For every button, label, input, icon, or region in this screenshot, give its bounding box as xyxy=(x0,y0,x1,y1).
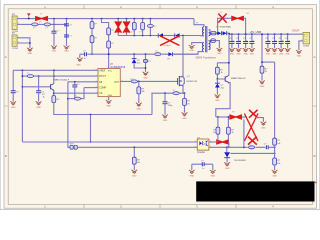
svg-text:GND: GND xyxy=(143,78,148,80)
svg-text:COMP: COMP xyxy=(99,88,106,90)
opto U2 pin numbers xyxy=(195,141,211,148)
Q1 collector wire xyxy=(53,70,55,83)
svg-text:1: 1 xyxy=(96,86,97,88)
IC U1 UC3842 xyxy=(98,69,120,98)
rectifier diode D6 xyxy=(221,31,229,35)
optocoupler U2 xyxy=(197,139,209,150)
cap C19 VREF filter xyxy=(11,91,16,93)
link to bottom loop xyxy=(90,115,92,143)
svg-text:4: 4 xyxy=(210,141,211,143)
svg-text:GND: GND xyxy=(266,54,271,56)
cap C18 on loop xyxy=(144,59,148,62)
ground C15 xyxy=(279,48,284,51)
ground D9 xyxy=(215,95,220,98)
Y-cap crossed C (red X) 1 xyxy=(115,18,122,36)
ground C8 xyxy=(229,48,234,51)
svg-text:GND: GND xyxy=(36,107,41,109)
crossed diode (red X) on bypass xyxy=(218,14,226,23)
svg-text:SMPS Transformer: SMPS Transformer xyxy=(196,57,217,60)
ground zener loop xyxy=(143,72,148,75)
ground C14 xyxy=(272,48,277,51)
ground at VCC cap xyxy=(79,54,81,58)
svg-text:1k: 1k xyxy=(43,96,45,98)
DNP bypass branch with crossed parts xyxy=(217,18,246,34)
svg-text:GND: GND xyxy=(279,54,284,56)
svg-text:1u: 1u xyxy=(269,40,271,42)
svg-text:GND: GND xyxy=(225,168,230,170)
svg-text:1u: 1u xyxy=(282,40,284,42)
ground R12 xyxy=(132,170,137,173)
svg-text:GND: GND xyxy=(189,50,194,52)
bridge crossed out (big red X) xyxy=(160,36,180,46)
ground C22 xyxy=(162,115,167,118)
crossed winding top (small red X) xyxy=(249,110,258,118)
gate pulldown resistor R20 xyxy=(137,81,145,104)
svg-text:MMBT3904-LF: MMBT3904-LF xyxy=(231,78,246,80)
ground P2 xyxy=(27,48,32,51)
svg-text:1u: 1u xyxy=(288,40,290,42)
svg-text:GND: GND xyxy=(272,54,277,56)
svg-text:1u: 1u xyxy=(253,40,255,42)
svg-text:3: 3 xyxy=(96,92,97,94)
svg-text:2k: 2k xyxy=(265,71,267,73)
svg-text:1: 1 xyxy=(18,17,19,19)
svg-text:A: A xyxy=(5,55,7,59)
svg-text:MMBT2222A-LF: MMBT2222A-LF xyxy=(53,78,70,81)
svg-text:B: B xyxy=(5,154,7,158)
zener D8 xyxy=(132,59,141,65)
bleeder chain R3 R4 xyxy=(101,18,115,55)
cap C16 xyxy=(285,33,290,48)
bleeder chain R1 R2 xyxy=(90,18,98,55)
FB wire xyxy=(68,81,98,83)
svg-text:8: 8 xyxy=(96,69,97,71)
CS sense wire xyxy=(152,93,185,114)
crossed transformer T2 (big red X) xyxy=(244,114,258,142)
svg-text:GND: GND xyxy=(132,175,137,177)
CS filter resistor R10 xyxy=(173,92,179,95)
Y-cap crossed C (red X) 2 xyxy=(123,18,130,36)
ground Y-cap left xyxy=(189,170,194,173)
bottom FB loop wire lower xyxy=(77,146,197,148)
connector P1 xyxy=(12,13,19,33)
svg-text:7: 7 xyxy=(107,67,108,69)
svg-text:1k: 1k xyxy=(232,132,234,134)
svg-text:10k: 10k xyxy=(137,162,140,164)
svg-text:1u: 1u xyxy=(246,40,248,42)
svg-text:GND: GND xyxy=(64,51,69,53)
wires P2 pins to ground xyxy=(17,38,30,48)
svg-text:FB: FB xyxy=(99,82,102,84)
junction to MOSFET drain xyxy=(182,35,184,37)
ground R16 xyxy=(259,81,264,84)
svg-text:A: A xyxy=(313,55,315,59)
crossed resistor (red bowtie) on bypass xyxy=(231,16,244,20)
svg-text:Zen: Zen xyxy=(221,87,224,89)
CS wire to IC xyxy=(54,92,98,94)
svg-text:GND: GND xyxy=(250,54,255,56)
svg-text:B: B xyxy=(313,154,315,158)
opto bias rail xyxy=(216,116,229,118)
svg-text:CS: CS xyxy=(99,93,103,95)
T2 left leg to lower wire xyxy=(243,120,245,148)
gate resistor R9 xyxy=(131,80,137,83)
TL431 ref wire xyxy=(230,152,274,154)
svg-text:1k: 1k xyxy=(213,132,215,134)
svg-text:1: 1 xyxy=(195,141,196,143)
series cap C17 on VCC rail xyxy=(83,50,86,60)
border zone ticks sides xyxy=(4,105,317,107)
svg-text:VREF: VREF xyxy=(99,71,106,73)
svg-text:UC3842B/SO8: UC3842B/SO8 xyxy=(110,67,126,69)
svg-text:GND: GND xyxy=(230,54,235,56)
pull-down resistor R12 xyxy=(133,147,135,157)
Y-cap C23 between grounds xyxy=(192,161,213,171)
ground TL431 xyxy=(225,163,230,166)
svg-text:SI2302-CB: SI2302-CB xyxy=(186,81,197,83)
svg-text:GND: GND xyxy=(190,176,195,178)
cap C8 xyxy=(229,33,234,48)
IC GND wire and ground xyxy=(108,97,110,101)
svg-text:1n: 1n xyxy=(202,168,204,170)
crossed resistor bowtie on bias rail xyxy=(229,115,242,119)
ground C9 xyxy=(236,48,241,51)
series cap C13 xyxy=(266,145,268,149)
ground under CX1 xyxy=(51,46,56,49)
MOSFET Q2 xyxy=(178,74,185,87)
divider resistor R15 xyxy=(273,158,277,165)
series resistor R13 xyxy=(249,146,255,149)
rectifier diode D5 xyxy=(216,31,221,35)
resistor R6 emitter xyxy=(52,96,56,103)
ground C19 xyxy=(11,102,16,105)
svg-text:5: 5 xyxy=(107,99,108,101)
TL431 feed resistor R19 xyxy=(227,117,229,127)
svg-text:1u: 1u xyxy=(239,40,241,42)
RT/CT cap C20 line xyxy=(36,75,45,101)
ground secondary return xyxy=(217,48,222,51)
crossed resistor (bowtie) opto feed xyxy=(216,140,229,144)
aux winding top pin to ground xyxy=(192,43,204,46)
ground Y-cap right xyxy=(210,170,215,173)
svg-text:Coupler: Coupler xyxy=(197,151,205,154)
svg-text:2: 2 xyxy=(195,146,196,148)
Q2 drain wire xyxy=(182,36,184,75)
ground P3 xyxy=(296,50,301,53)
OUT wire with gate resistor xyxy=(120,80,177,82)
divider resistor R14 xyxy=(273,138,277,145)
svg-text:2: 2 xyxy=(18,23,19,25)
zener D9 xyxy=(215,79,224,95)
misc small value labels xyxy=(56,71,280,165)
Q1 emitter wire and CS junction xyxy=(53,90,55,95)
svg-text:GND: GND xyxy=(272,176,277,178)
power port L (red) xyxy=(28,16,30,18)
opto feed resistor R18 xyxy=(217,117,219,127)
secondary winding pin wires xyxy=(209,30,211,33)
svg-text:6: 6 xyxy=(122,80,123,82)
border zone ticks bottom xyxy=(84,204,236,208)
svg-text:GND: GND xyxy=(137,109,142,111)
bridge diode D2 xyxy=(175,33,201,37)
svg-text:1n: 1n xyxy=(84,58,86,60)
svg-text:RT/CT: RT/CT xyxy=(99,76,106,78)
X-cap CX1 line xyxy=(52,18,61,46)
svg-text:CON2: CON2 xyxy=(303,46,310,48)
wire P3 pin2 to ground xyxy=(299,41,303,50)
bleeder resistor R16 xyxy=(260,66,264,73)
connector P3 xyxy=(303,32,310,47)
CS filter cap C22 xyxy=(164,93,166,101)
opto right top pin wire xyxy=(209,141,216,143)
ground R20 xyxy=(136,103,141,106)
svg-text:GND: GND xyxy=(163,120,168,122)
ground divider xyxy=(272,170,277,173)
title block red mark xyxy=(315,182,317,184)
film cap C6 xyxy=(139,18,144,37)
ground R11 xyxy=(182,113,187,116)
svg-text:GND: GND xyxy=(28,53,33,55)
svg-text:10k: 10k xyxy=(142,91,145,93)
transistor Q1 MMBT2222A xyxy=(22,84,54,92)
title block (redacted) xyxy=(196,181,314,201)
cap C10 xyxy=(243,33,248,48)
svg-text:GND: GND xyxy=(243,54,248,56)
svg-text:2: 2 xyxy=(301,39,302,41)
fuse FB1 xyxy=(211,32,216,35)
svg-text:GND: GND xyxy=(285,54,290,56)
ground aux winding xyxy=(189,45,194,48)
svg-text:GND: GND xyxy=(182,118,187,120)
svg-text:3: 3 xyxy=(210,146,211,148)
svg-text:1u: 1u xyxy=(275,40,277,42)
border zone ticks top xyxy=(84,5,236,9)
junction dots VREF/RTCT xyxy=(22,69,24,71)
bottom FB loop wire upper xyxy=(22,141,197,143)
resistor R5 xyxy=(27,75,33,78)
svg-text:2: 2 xyxy=(96,80,97,82)
svg-text:GND: GND xyxy=(211,176,216,178)
connector P2 (earth) xyxy=(12,32,19,50)
aux winding bottom pin wire xyxy=(173,52,204,55)
Q3 emitter wire to opto rail xyxy=(216,83,230,117)
svg-text:GND: GND xyxy=(215,100,220,102)
svg-text:TL431DBZR: TL431DBZR xyxy=(234,160,247,162)
svg-text:Bridge?: Bridge? xyxy=(164,44,172,47)
svg-text:VCC: VCC xyxy=(108,71,113,73)
comp cap C21 xyxy=(74,82,76,85)
svg-text:4: 4 xyxy=(96,75,97,77)
left long vertical wire xyxy=(21,70,23,142)
svg-text:GND: GND xyxy=(52,51,57,53)
inner border frame xyxy=(8,9,312,205)
IC VCC wire xyxy=(108,54,110,68)
left vertical VREF to cap xyxy=(12,70,14,90)
VREF wire xyxy=(13,69,98,71)
svg-text:Zen: Zen xyxy=(137,63,140,65)
svg-text:VOUT: VOUT xyxy=(292,28,300,32)
wire P1 pin1 to AC rail xyxy=(17,18,21,20)
resistor R7 on VCC rail xyxy=(155,53,161,56)
svg-text:2: 2 xyxy=(18,42,19,44)
cap C15 xyxy=(279,33,284,48)
ground C11 xyxy=(249,48,254,51)
net tie NT1 xyxy=(70,144,77,150)
svg-text:1: 1 xyxy=(301,34,302,36)
ground C12 xyxy=(265,48,270,51)
cap C12 xyxy=(265,33,270,48)
svg-text:1: 1 xyxy=(18,36,19,38)
TL431 U4 xyxy=(224,147,230,162)
svg-text:GND: GND xyxy=(217,53,222,55)
lower DC rail wire xyxy=(118,35,158,37)
inductor L3 xyxy=(147,18,157,37)
VCC aux rail xyxy=(91,53,93,55)
svg-text:GND: GND xyxy=(76,65,81,67)
FB long vertical to net tie xyxy=(68,82,70,148)
svg-text:GND: GND xyxy=(11,107,16,109)
transistor Q3 MMBT3904 xyxy=(225,75,229,83)
svg-text:GND: GND xyxy=(297,55,302,57)
svg-text:D? SS34/SMA: D? SS34/SMA xyxy=(217,26,232,29)
X-cap CX2 line xyxy=(64,18,73,46)
IC U1 pin numbers xyxy=(96,67,123,101)
cap C11 xyxy=(249,33,254,48)
svg-text:GND: GND xyxy=(260,86,265,88)
connector pin numbers xyxy=(18,17,302,43)
fuse F1 crossed out (red bowtie X) xyxy=(35,14,48,21)
svg-text:GND: GND xyxy=(236,54,241,56)
comp resistor R8 xyxy=(68,98,75,100)
svg-text:CON2: CON2 xyxy=(12,48,19,50)
T2 right leg to ground xyxy=(256,118,263,122)
VCC zener clamp loop xyxy=(133,53,146,72)
svg-text:10k: 10k xyxy=(277,143,280,145)
+5V output rail xyxy=(229,33,303,35)
sense resistor R11 xyxy=(184,93,186,98)
RT/CT wire with R5 xyxy=(22,75,98,77)
svg-text:1k: 1k xyxy=(221,72,223,74)
lower AC line wire xyxy=(21,23,67,25)
FB tap from +5V rail xyxy=(262,34,275,66)
ground C20 xyxy=(36,102,41,105)
Q3 collector wire xyxy=(228,63,230,76)
transformer T1 xyxy=(203,26,211,52)
svg-text:n.f.: n.f. xyxy=(253,131,256,133)
AC top rail wire xyxy=(21,18,194,20)
cap C14 xyxy=(272,33,277,48)
svg-text:OUT: OUT xyxy=(114,82,119,84)
film cap C5 xyxy=(131,18,136,37)
COMP wire xyxy=(84,87,98,89)
cap bank value labels xyxy=(233,40,291,42)
fuse FB2 xyxy=(211,39,220,48)
opto lower wire to divider xyxy=(209,146,275,148)
choke winding L2a xyxy=(32,23,38,26)
svg-text:1u: 1u xyxy=(233,40,235,42)
ground C16 xyxy=(285,48,290,51)
emitter R wire down to CS gnd line xyxy=(54,103,152,115)
crossed winding bottom (small red X) xyxy=(248,137,257,145)
ground under CX2 xyxy=(64,46,69,49)
svg-text:1k2: 1k2 xyxy=(56,99,59,101)
svg-text:GND: GND xyxy=(106,106,111,108)
wire primary bottom to transformer xyxy=(201,35,204,37)
wire P1 pin2 to lower AC line xyxy=(17,23,21,25)
svg-text:10k: 10k xyxy=(277,163,280,165)
svg-text:GND: GND xyxy=(261,127,266,129)
diode D7 aux rectifier xyxy=(168,52,199,60)
bias resistor R17 xyxy=(216,34,230,80)
choke winding L2b xyxy=(44,23,50,26)
Q2 source wire xyxy=(183,88,185,94)
top rail corner to transformer pin1 xyxy=(194,19,204,27)
feedback divider vertical xyxy=(274,62,276,170)
ground C10 xyxy=(243,48,248,51)
bridge diode D1 xyxy=(158,33,174,37)
cap C9 xyxy=(236,33,241,48)
